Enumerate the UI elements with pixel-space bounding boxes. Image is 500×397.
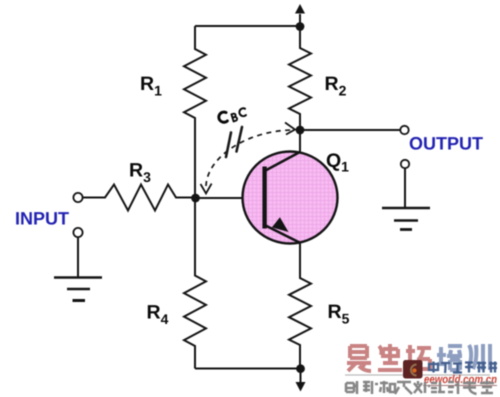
svg-text:R3: R3 — [129, 160, 151, 186]
svg-text:INPUT: INPUT — [15, 209, 69, 229]
svg-text:Q1: Q1 — [326, 150, 349, 175]
svg-text:OUTPUT: OUTPUT — [409, 134, 483, 154]
svg-text:R1: R1 — [140, 73, 162, 99]
svg-text:R2: R2 — [325, 73, 347, 99]
svg-text:R5: R5 — [328, 301, 350, 327]
svg-text:R4: R4 — [147, 302, 169, 328]
